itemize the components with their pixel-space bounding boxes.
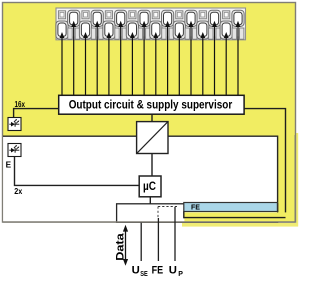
svg-text:16x: 16x	[15, 100, 26, 109]
svg-text:FE: FE	[152, 265, 164, 277]
svg-text:2x: 2x	[14, 187, 23, 196]
svg-text:U: U	[132, 265, 140, 277]
svg-text:P: P	[178, 271, 183, 278]
svg-text:SE: SE	[140, 271, 148, 278]
svg-text:E: E	[6, 161, 12, 170]
svg-text:µC: µC	[143, 181, 156, 193]
svg-text:U: U	[169, 265, 177, 277]
svg-text:Output circuit & supply superv: Output circuit & supply supervisor	[69, 98, 233, 112]
svg-text:FE: FE	[191, 202, 200, 211]
svg-text:Data: Data	[114, 233, 126, 261]
